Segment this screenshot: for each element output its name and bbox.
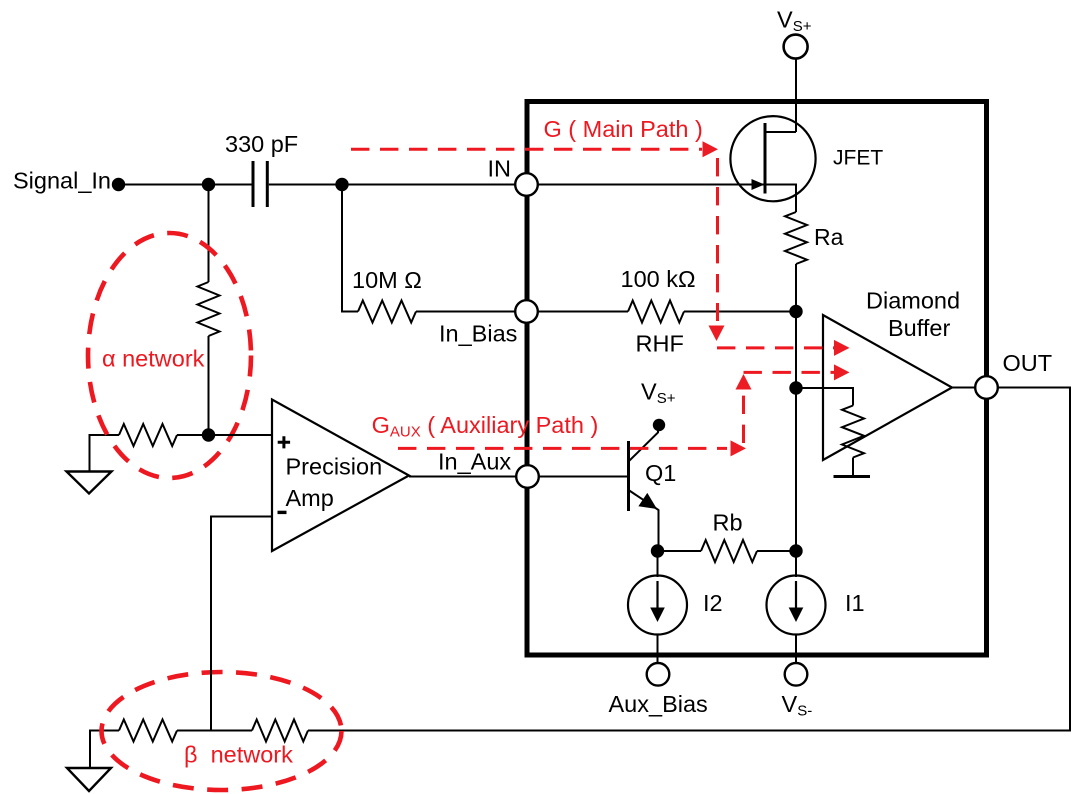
Q1 collector lead xyxy=(629,425,658,461)
IC boundary box xyxy=(527,102,987,656)
wire - input to beta junction xyxy=(211,517,272,731)
svg-text:β network: β network xyxy=(184,742,293,768)
wire resistor to ground xyxy=(90,435,120,472)
node Rb / rail xyxy=(789,544,802,557)
dashed ellipse alpha network xyxy=(88,233,251,478)
wire In_Bias to RHF xyxy=(527,311,628,313)
node buffer branch xyxy=(789,381,802,394)
node Signal_In xyxy=(112,178,125,191)
svg-text:JFET: JFET xyxy=(833,147,883,170)
wire VS+ terminal down to JFET drain xyxy=(795,59,797,133)
svg-text:Ra: Ra xyxy=(814,224,844,250)
terminal In_Bias xyxy=(515,300,538,323)
aux path dashed into buffer xyxy=(744,371,836,374)
dashed ellipse beta network xyxy=(102,672,342,790)
wire emitter node to Rb xyxy=(658,550,702,552)
terminal VS- xyxy=(785,663,808,686)
main path dashed into buffer xyxy=(717,346,835,349)
resistor 10M Ohm xyxy=(358,301,416,323)
ground (beta network) xyxy=(67,768,111,791)
JFET source lead xyxy=(765,185,796,213)
svg-text:OUT: OUT xyxy=(1003,350,1053,376)
minus mark xyxy=(278,511,287,514)
svg-text:In_Bias: In_Bias xyxy=(439,321,517,347)
wire emitter node to I2 xyxy=(657,551,659,577)
wire pot to ground bar xyxy=(852,458,854,476)
current source I1 xyxy=(767,576,826,635)
wire alpha resistor to junction xyxy=(208,336,210,435)
resistor RHF 100 kOhm xyxy=(628,301,684,323)
ground (alpha network) xyxy=(67,472,112,494)
wire Ra to node xyxy=(795,264,797,312)
wire node down and to 10M resistor xyxy=(342,185,358,312)
aux path dashed vertical xyxy=(742,392,745,443)
wire between beta resistors xyxy=(177,730,252,732)
Q1 base bar xyxy=(627,441,630,511)
svg-text:RHF: RHF xyxy=(636,331,684,357)
wire IN to JFET gate xyxy=(527,184,764,186)
wire 10M to In_Bias xyxy=(416,311,527,313)
aux path dashed horizontal xyxy=(398,447,727,450)
wire In_Aux to Q1 base xyxy=(527,476,629,478)
resistor Rb xyxy=(701,540,757,562)
current source I2 xyxy=(628,576,687,635)
node alpha junction xyxy=(202,428,215,441)
svg-text:VS+: VS+ xyxy=(777,7,812,36)
wire RHF to rail node xyxy=(684,311,796,313)
wire Rb to rail xyxy=(757,550,796,552)
svg-text:GAUX ( Auxiliary Path ): GAUX ( Auxiliary Path ) xyxy=(372,412,599,441)
node 10M branch xyxy=(335,178,348,191)
wire I2 to Aux_Bias xyxy=(657,635,659,665)
terminal IN xyxy=(515,173,538,196)
wire beta to ground xyxy=(90,731,119,768)
svg-text:Signal_In: Signal_In xyxy=(13,168,111,194)
terminal Aux_Bias xyxy=(647,663,670,686)
wire rail down xyxy=(795,312,797,578)
svg-text:G ( Main Path ): G ( Main Path ) xyxy=(544,116,703,142)
JFET drain lead xyxy=(765,131,796,133)
resistor alpha top (vertical) xyxy=(198,282,220,336)
svg-text:I1: I1 xyxy=(845,590,865,616)
wire node into buffer / pot xyxy=(796,388,853,406)
svg-text:VS-: VS- xyxy=(782,691,813,720)
svg-text:α network: α network xyxy=(102,346,205,372)
svg-text:100 kΩ: 100 kΩ xyxy=(621,266,696,292)
wire down to alpha top resistor xyxy=(208,185,210,283)
wire buffer output to OUT xyxy=(952,387,986,389)
JFET channel bar xyxy=(764,123,767,194)
terminal OUT xyxy=(975,376,998,399)
JFET gate arrow xyxy=(752,179,765,190)
resistor alpha bottom (horizontal) xyxy=(119,424,177,446)
svg-text:Rb: Rb xyxy=(713,510,743,536)
power terminal VS+ xyxy=(784,35,808,59)
svg-text:10M Ω: 10M Ω xyxy=(352,267,422,293)
terminal dot Q1 VS+ xyxy=(653,419,665,431)
wire OUT feedback loop xyxy=(308,388,1070,731)
svg-text:Q1: Q1 xyxy=(645,460,676,486)
ground bar (buffer) xyxy=(834,475,871,478)
terminal In_Aux xyxy=(516,465,539,488)
potentiometer inside buffer xyxy=(842,406,864,458)
main path dashed vertical xyxy=(716,158,719,321)
wire junction to alpha bottom resistor xyxy=(177,434,209,436)
svg-text:Buffer: Buffer xyxy=(888,315,950,341)
wire alpha junction to + input xyxy=(209,434,273,436)
Q1 emitter lead xyxy=(629,490,659,551)
node Q1 emitter / Rb xyxy=(651,544,664,557)
svg-text:Aux_Bias: Aux_Bias xyxy=(609,691,708,717)
svg-text:Diamond: Diamond xyxy=(866,288,960,314)
svg-text:Precision: Precision xyxy=(286,454,383,480)
node alpha branch xyxy=(202,178,215,191)
resistor beta left xyxy=(119,720,177,742)
capacitor 330 pF plates xyxy=(253,161,267,207)
svg-text:IN: IN xyxy=(488,156,512,182)
wire amp output to In_Aux xyxy=(409,476,527,478)
wire capacitor to IN xyxy=(269,184,527,186)
svg-text:VS+: VS+ xyxy=(641,379,676,408)
wire I1 to VS- xyxy=(795,635,797,665)
main path dashed horizontal xyxy=(351,148,702,151)
svg-text:In_Aux: In_Aux xyxy=(438,449,511,475)
resistor beta right xyxy=(252,720,308,742)
plus mark xyxy=(278,436,290,448)
op-amp precision amp triangle xyxy=(272,400,409,552)
JFET body circle xyxy=(730,116,815,201)
svg-text:330 pF: 330 pF xyxy=(225,131,298,157)
node Ra/RHF xyxy=(789,305,802,318)
diamond buffer triangle xyxy=(823,315,952,460)
svg-text:Amp: Amp xyxy=(286,485,334,511)
wire Signal_In to capacitor xyxy=(118,184,252,186)
Q1 emitter arrow xyxy=(638,493,657,509)
resistor Ra (vertical) xyxy=(785,212,807,264)
svg-text:I2: I2 xyxy=(703,590,723,616)
